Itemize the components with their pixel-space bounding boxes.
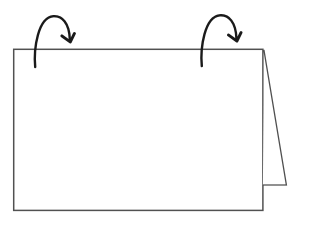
folded flap (263, 50, 287, 185)
left fold arrow (35, 16, 75, 67)
card face (14, 49, 263, 210)
right fold arrow (201, 15, 241, 66)
